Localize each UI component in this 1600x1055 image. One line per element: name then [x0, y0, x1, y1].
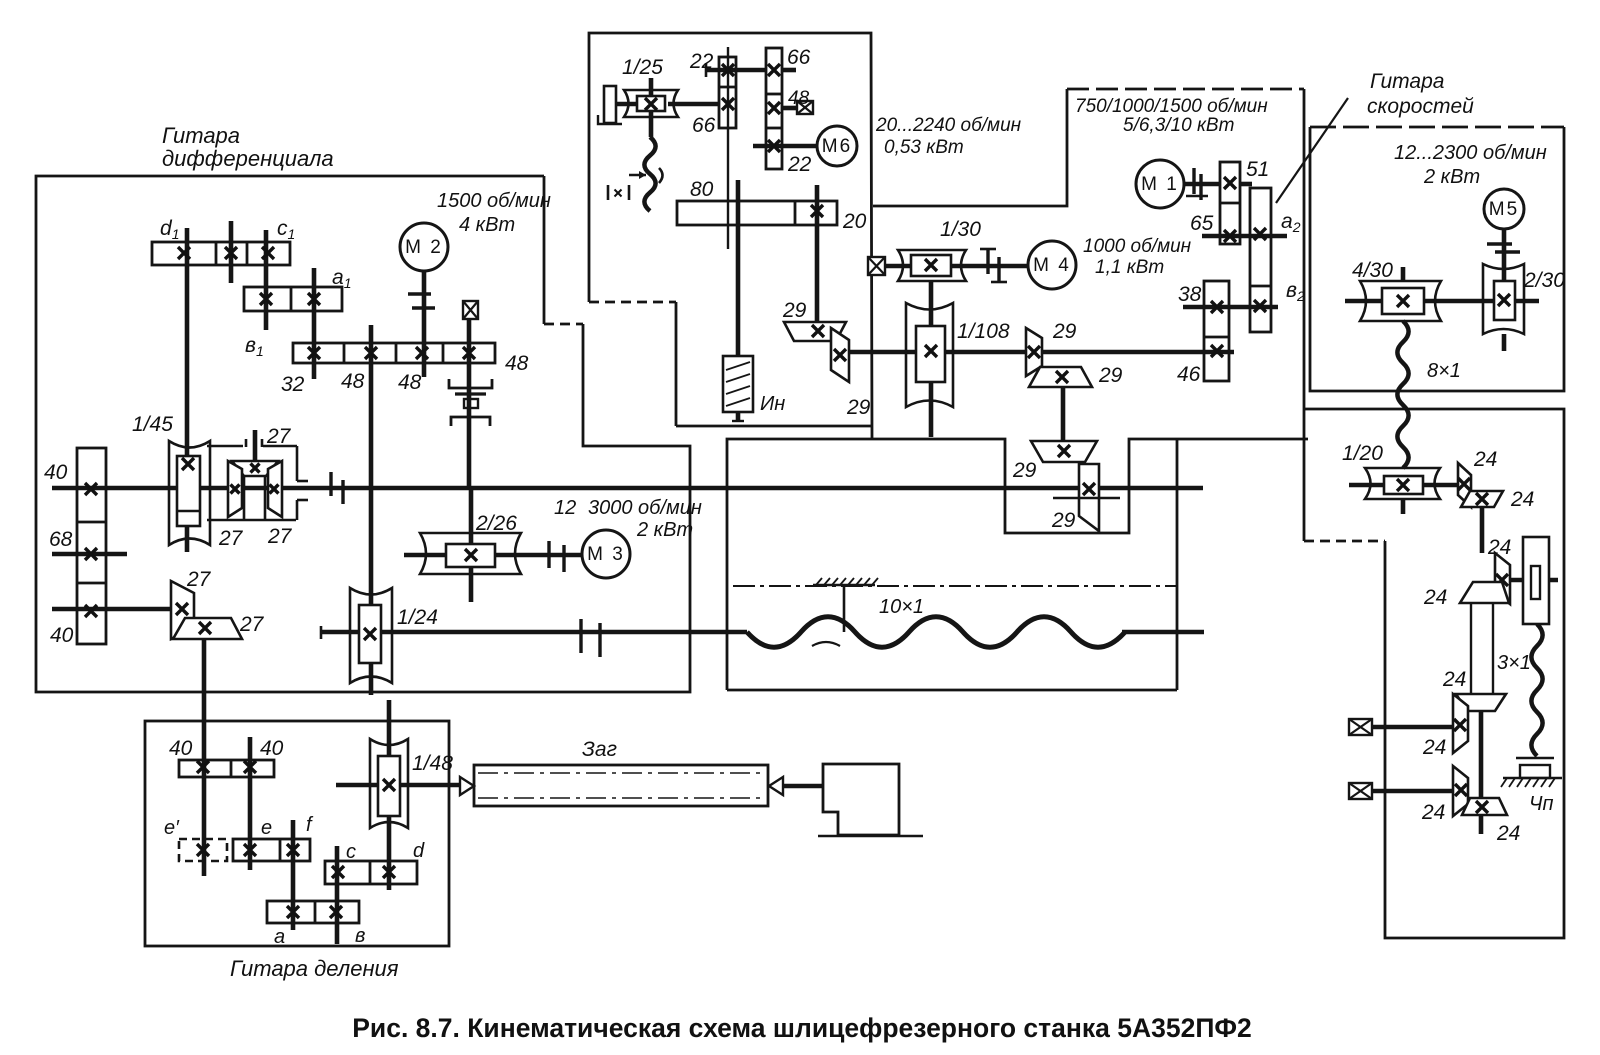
svg-text:e′: e′ — [164, 817, 180, 839]
svg-text:10×1: 10×1 — [879, 596, 924, 618]
svg-text:24: 24 — [1421, 801, 1445, 824]
motor M6 — [817, 126, 857, 166]
wire shaft worm 1/20 bottom stub — [1401, 499, 1406, 514]
motor M2 — [400, 223, 448, 271]
coupling M2 — [408, 292, 431, 295]
svg-text:29: 29 — [1052, 320, 1077, 343]
svg-text:1/108: 1/108 — [957, 320, 1010, 343]
svg-text:12...2300 об/мин: 12...2300 об/мин — [1394, 142, 1547, 164]
wire shaft stub 40 lower — [52, 607, 171, 612]
wire screw 3x1 ribbon — [1470, 604, 1472, 694]
wire shaft bevel24 center lower — [1479, 711, 1484, 834]
bevel pair 24-24 feed upper — [1456, 694, 1506, 711]
bevel pair 24-24 top right — [1458, 463, 1471, 507]
wire shaft gear 20 down to bevel 29 — [815, 185, 820, 322]
svg-text:Рис. 8.7. Кинематическая схема: Рис. 8.7. Кинематическая схема шлицефрез… — [352, 1013, 1252, 1043]
tachometer In hatched box — [723, 356, 753, 412]
svg-text:48: 48 — [788, 88, 810, 109]
wire shaft a1 to gear 32 — [312, 268, 317, 379]
gear block v1-a1 — [244, 287, 342, 311]
differential right bevel 27 — [268, 461, 282, 517]
svg-text:1/45: 1/45 — [132, 413, 173, 436]
svg-text:27: 27 — [239, 613, 265, 636]
wire shaft gear22 to M6 — [753, 144, 817, 149]
svg-text:0,53 кВт: 0,53 кВт — [884, 137, 964, 158]
center arrow left of Zag — [460, 777, 474, 795]
gear block 51-65 — [1220, 162, 1240, 244]
wire shaft middle gear d1c1 row — [229, 221, 234, 283]
svg-text:24: 24 — [1422, 736, 1446, 759]
svg-text:Заг: Заг — [582, 738, 617, 761]
svg-text:М 4: М 4 — [1033, 255, 1071, 276]
gear e-prime dashed — [179, 839, 227, 861]
svg-text:2 кВт: 2 кВт — [636, 519, 693, 541]
svg-text:24: 24 — [1442, 668, 1466, 691]
bevel pair 29-29 mid box notch — [1031, 441, 1097, 462]
gear block 22-66 — [719, 57, 736, 128]
table centerline dash-dot — [733, 585, 1176, 587]
wire shaft bevel 24 vertical upper — [1480, 507, 1485, 553]
svg-text:68: 68 — [49, 528, 73, 551]
coupling M1 — [1192, 168, 1195, 194]
gear block 38-46 — [1204, 281, 1229, 381]
svg-text:22: 22 — [689, 50, 714, 73]
motor M5 — [1484, 189, 1524, 229]
svg-text:в: в — [355, 925, 365, 947]
svg-text:66: 66 — [787, 46, 811, 69]
ground support Chp — [1516, 757, 1554, 760]
svg-text:20...2240 об/мин: 20...2240 об/мин — [875, 115, 1022, 136]
wire shaft bearing to bevel 24 lower — [1372, 789, 1453, 794]
wire slider screw wavy — [1531, 624, 1542, 756]
motor M1 — [1136, 160, 1184, 208]
svg-text:Гитара: Гитара — [1370, 70, 1444, 93]
wire shaft M2 to gear 48 — [422, 271, 427, 377]
worm drive 2/26 — [420, 533, 521, 574]
svg-text:a: a — [274, 926, 285, 948]
svg-text:8×1: 8×1 — [1427, 360, 1461, 382]
svg-text:1/24: 1/24 — [397, 606, 438, 629]
coupling M5 — [1487, 242, 1512, 245]
svg-text:12: 12 — [554, 497, 576, 519]
motor M4 — [1028, 241, 1076, 289]
gear column 40-68-40 — [77, 448, 106, 644]
svg-text:М 3: М 3 — [587, 544, 625, 565]
box Gitara skorostei outline — [1310, 126, 1564, 129]
wire shaft stub 68 — [52, 552, 127, 557]
svg-text:24: 24 — [1473, 448, 1497, 471]
workpiece Zag bar — [474, 765, 768, 806]
bevel pair 24-24 with slider — [1495, 553, 1510, 604]
box M-drives outline — [873, 89, 1067, 206]
wire shaft to tachometer In — [736, 180, 741, 356]
small arc under worm wave — [812, 642, 840, 646]
svg-text:2 кВт: 2 кВт — [1423, 166, 1480, 188]
wire shaft 4/30 to 2/30 — [1345, 299, 1494, 304]
wire shaft f-a — [291, 820, 296, 930]
bearing gear 48 upper — [463, 301, 478, 319]
svg-text:скоростей: скоростей — [1367, 95, 1474, 118]
coupling 1/30 to M4 — [986, 249, 989, 274]
svg-text:66: 66 — [692, 114, 716, 137]
wire lower worm shaft — [320, 626, 323, 639]
wire shaft gear 38-v2 row — [1183, 305, 1278, 310]
svg-text:2/26: 2/26 — [475, 512, 517, 535]
wire main shaft I — [52, 486, 1203, 491]
wire shaft 1/25 input pulley — [604, 102, 637, 107]
gear block d1-c1 — [152, 242, 290, 265]
wire shaft bevel29 down to mid box — [1061, 387, 1066, 442]
svg-text:5/6,3/10 кВт: 5/6,3/10 кВт — [1123, 115, 1234, 136]
tailstock shaft — [783, 784, 823, 789]
wire shaft M1 to gear 51 — [1184, 182, 1220, 187]
svg-text:3×1: 3×1 — [1497, 652, 1531, 674]
svg-text:4 кВт: 4 кВт — [459, 214, 515, 236]
gear block 80-20 — [677, 201, 837, 225]
wire shaft gear 65-a2 row — [1202, 234, 1287, 239]
svg-text:М5: М5 — [1489, 199, 1519, 220]
svg-text:27: 27 — [266, 425, 292, 448]
svg-text:1000 об/мин: 1000 об/мин — [1083, 236, 1192, 257]
svg-text:48: 48 — [341, 370, 365, 393]
gear block a-v — [267, 901, 359, 923]
wire support to worm wave — [843, 586, 846, 632]
svg-text:2/30: 2/30 — [1523, 269, 1565, 292]
svg-text:24: 24 — [1510, 488, 1534, 511]
svg-text:48: 48 — [398, 371, 422, 394]
svg-text:Чп: Чп — [1529, 793, 1553, 815]
bearing feed lower — [1349, 783, 1372, 799]
coupling main shaft — [329, 472, 332, 496]
wire shaft gear40 right in deleniya — [248, 737, 253, 870]
wire shaft bevel24 to slider — [1510, 578, 1558, 583]
wire shaft gear 66 top stub — [782, 68, 796, 73]
svg-text:1/30: 1/30 — [940, 218, 981, 241]
svg-text:20: 20 — [842, 210, 867, 233]
bevel pair 29-29 under gear 20 — [784, 322, 846, 341]
differential housing brackets — [207, 445, 243, 448]
differential carrier U — [243, 476, 246, 519]
svg-text:24: 24 — [1423, 586, 1447, 609]
wire shaft bearing to worm 1/30 to M4 — [885, 264, 1028, 269]
worm drive 1/20 — [1365, 468, 1440, 499]
svg-text:1/48: 1/48 — [412, 752, 453, 775]
wire shaft gear 66 vertical thin — [727, 47, 729, 249]
svg-text:24: 24 — [1496, 822, 1520, 845]
tailstock block — [823, 764, 899, 835]
differential top bevel 27 — [232, 461, 278, 476]
svg-text:27: 27 — [218, 527, 244, 550]
bevel pair 24-24 feed lower — [1453, 766, 1468, 816]
worm drive 1/45 — [169, 441, 210, 545]
worm drive 1/48 — [370, 739, 408, 828]
svg-text:27: 27 — [267, 525, 293, 548]
coupling 2/26 to M3 — [547, 541, 550, 568]
wire shaft 1/25 to gear 66 — [668, 102, 719, 107]
svg-text:80: 80 — [690, 178, 714, 201]
svg-text:40: 40 — [260, 737, 284, 760]
arrow to flexible shaft — [629, 174, 646, 176]
differential left bevel 27 — [228, 461, 242, 517]
box Gitara differentsiala outline — [36, 176, 690, 692]
box 1/25 gear unit outline — [589, 33, 872, 439]
svg-text:40: 40 — [169, 737, 193, 760]
svg-text:29: 29 — [782, 299, 807, 322]
wire shaft worm 1/48 output to Zag — [336, 783, 378, 788]
pulley at 1/25 input — [604, 86, 616, 123]
wire shaft c-v — [335, 846, 340, 944]
svg-text:4/30: 4/30 — [1352, 259, 1393, 282]
jaw clutch on gear 48 shaft — [449, 379, 492, 388]
hatched support above worm 10x1 — [813, 584, 875, 586]
gear block 66-48-22 — [766, 48, 782, 169]
gear block a2-v2 — [1250, 188, 1271, 332]
wire shaft worm 1/48 to d — [387, 700, 392, 890]
gear block c-d — [325, 861, 417, 884]
bevel pair 27-27 left box — [171, 581, 194, 639]
svg-text:750/1000/1500 об/мин: 750/1000/1500 об/мин — [1075, 96, 1268, 117]
gear block 40-40 deleniya — [179, 760, 274, 777]
worm drive 4/30 — [1360, 281, 1441, 321]
svg-text:32: 32 — [281, 373, 305, 396]
wire shaft gear48 to worm 1/24 and 1/48 — [369, 325, 374, 695]
svg-text:c: c — [346, 841, 356, 863]
svg-text:М 1: М 1 — [1141, 174, 1179, 195]
wire shaft gear 48 clutch to main shaft — [467, 319, 472, 488]
svg-text:1/20: 1/20 — [1342, 442, 1383, 465]
svg-text:29: 29 — [1012, 459, 1037, 482]
bevel pair 29-29 on shaft II — [1026, 328, 1042, 376]
svg-text:24: 24 — [1487, 536, 1511, 559]
worm drive 1/108 — [906, 303, 953, 407]
wire shaft worm 1/20 row — [1349, 483, 1458, 488]
svg-text:3000 об/мин: 3000 об/мин — [588, 497, 702, 519]
motor M3 — [582, 530, 630, 578]
wire shaft gear22 row — [706, 68, 766, 73]
wire shaft d1 to worm 1/45 — [185, 228, 190, 552]
gear block e-f — [233, 839, 310, 861]
box lower-right feed outline — [1304, 409, 1564, 938]
bearing feed upper — [1349, 719, 1372, 735]
svg-text:d: d — [413, 840, 425, 862]
svg-text:М6: М6 — [822, 136, 852, 157]
wire shaft worm 1/30 down to worm 1/108 — [929, 281, 934, 437]
worm drive 2/30 — [1483, 264, 1524, 334]
wire shaft bearing to bevel 24 upper — [1372, 725, 1453, 730]
wire shaft 2/26 vertical — [469, 488, 474, 602]
svg-text:40: 40 — [44, 461, 68, 484]
svg-text:46: 46 — [1177, 363, 1201, 386]
wire shaft 2/26 to M3 — [404, 553, 446, 558]
svg-text:22: 22 — [787, 153, 812, 176]
center arrow right of Zag — [769, 777, 783, 795]
wire shaft bevel 27 down to gear 40 — [202, 639, 207, 876]
coupling lower worm shaft — [579, 619, 582, 653]
bearing worm 1/30 left — [868, 257, 885, 275]
svg-text:29: 29 — [1051, 509, 1076, 532]
svg-text:40: 40 — [50, 624, 74, 647]
wire shaft 1/25 top stub — [649, 78, 654, 96]
svg-text:29: 29 — [846, 396, 871, 419]
svg-text:дифференциала: дифференциала — [162, 146, 334, 171]
wire flexible shaft below 1/25 — [649, 111, 654, 137]
svg-text:М 2: М 2 — [405, 237, 443, 258]
svg-text:65: 65 — [1190, 212, 1214, 235]
svg-text:51: 51 — [1246, 158, 1269, 181]
box middle worm-drive outline — [727, 439, 1308, 690]
wire shaft c1-v1 — [264, 230, 269, 330]
svg-text:Ин: Ин — [760, 393, 785, 415]
svg-text:1/25: 1/25 — [622, 56, 663, 79]
symbol 1x1 machine zero — [607, 185, 610, 200]
bearing gear 48 top middle — [797, 101, 813, 114]
worm drive 1/24 — [350, 588, 392, 683]
svg-text:48: 48 — [505, 352, 529, 375]
svg-text:Гитара: Гитара — [162, 123, 240, 148]
gear block 32-48-48-48 — [293, 343, 495, 363]
worm drive 1/25 — [624, 90, 678, 117]
wire shaft gear66-48 row — [782, 106, 797, 111]
wire shaft M5 down — [1502, 229, 1507, 281]
svg-text:27: 27 — [186, 568, 212, 591]
leader line Gitara skorostei — [1276, 98, 1348, 203]
svg-text:e: e — [261, 817, 272, 839]
worm drive 1/30 — [898, 250, 966, 281]
wire shaft differential top 27 — [253, 430, 258, 463]
wire screw 8x1 wavy — [1397, 321, 1408, 468]
svg-text:Гитара деления: Гитара деления — [230, 956, 399, 981]
wire shaft 4/30 top stub — [1401, 267, 1406, 281]
svg-text:29: 29 — [1098, 364, 1123, 387]
svg-text:1500 об/мин: 1500 об/мин — [437, 190, 551, 212]
wire shaft bevel29 to shaft II — [848, 350, 1234, 355]
svg-text:38: 38 — [1178, 283, 1202, 306]
box Gitara deleniya outline — [145, 721, 449, 946]
guide slider nut block — [1523, 537, 1549, 624]
svg-text:1,1 кВт: 1,1 кВт — [1095, 257, 1164, 278]
